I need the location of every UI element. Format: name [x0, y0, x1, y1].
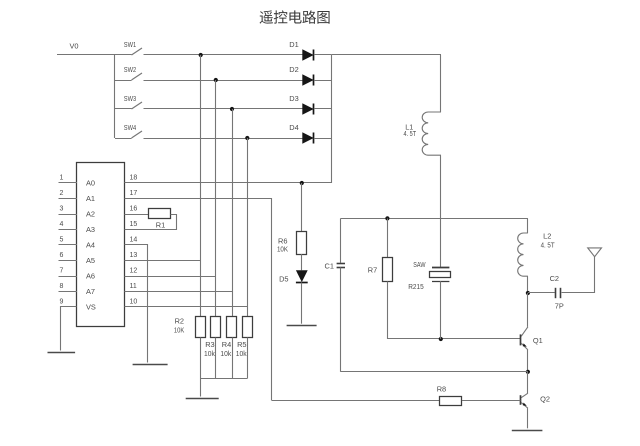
svg-text:R7: R7 [368, 265, 377, 274]
svg-text:16: 16 [130, 206, 138, 213]
svg-text:R3: R3 [205, 340, 214, 349]
svg-text:A3: A3 [86, 225, 95, 234]
svg-text:R215: R215 [408, 282, 424, 291]
svg-text:Q1: Q1 [533, 336, 543, 345]
svg-text:10k: 10k [220, 349, 231, 358]
svg-text:15: 15 [130, 221, 138, 228]
svg-text:C1: C1 [325, 261, 334, 270]
svg-text:10K: 10K [277, 244, 288, 253]
svg-text:A1: A1 [86, 194, 95, 203]
svg-text:V0: V0 [70, 42, 79, 51]
svg-text:17: 17 [130, 190, 138, 197]
svg-text:5: 5 [60, 237, 64, 244]
svg-text:SW4: SW4 [124, 123, 136, 132]
svg-text:D4: D4 [289, 123, 298, 132]
svg-text:D1: D1 [289, 40, 298, 49]
svg-text:10K: 10K [174, 325, 184, 334]
svg-text:4: 4 [60, 221, 64, 228]
svg-text:D2: D2 [289, 65, 298, 74]
svg-text:C2: C2 [550, 274, 559, 283]
svg-text:VS: VS [86, 303, 96, 312]
svg-text:R5: R5 [237, 340, 246, 349]
svg-text:8: 8 [60, 283, 64, 290]
svg-text:18: 18 [130, 175, 138, 182]
svg-text:1: 1 [60, 175, 64, 182]
svg-text:SAW: SAW [413, 260, 425, 269]
svg-text:4. 5T: 4. 5T [541, 241, 555, 250]
svg-text:3: 3 [60, 206, 64, 213]
svg-text:2: 2 [60, 190, 64, 197]
svg-text:A6: A6 [86, 272, 95, 281]
svg-text:9: 9 [60, 299, 64, 306]
svg-text:4. 5T: 4. 5T [404, 129, 417, 138]
svg-text:R2: R2 [175, 317, 184, 326]
svg-text:A5: A5 [86, 256, 95, 265]
svg-text:A7: A7 [86, 287, 95, 296]
svg-text:10k: 10k [236, 349, 247, 358]
svg-text:R8: R8 [437, 384, 446, 393]
svg-text:10k: 10k [204, 349, 215, 358]
svg-text:D3: D3 [289, 94, 298, 103]
svg-text:R1: R1 [156, 220, 165, 229]
svg-text:7: 7 [60, 268, 64, 275]
svg-text:SW3: SW3 [124, 94, 136, 103]
svg-text:D5: D5 [279, 275, 288, 284]
svg-text:L2: L2 [543, 232, 551, 241]
svg-text:SW1: SW1 [124, 40, 136, 49]
svg-text:13: 13 [130, 252, 138, 259]
svg-text:14: 14 [130, 237, 138, 244]
svg-text:10: 10 [130, 299, 138, 306]
svg-text:6: 6 [60, 252, 64, 259]
svg-text:11: 11 [130, 283, 137, 290]
svg-text:A0: A0 [86, 179, 95, 188]
svg-text:A2: A2 [86, 210, 95, 219]
svg-text:R4: R4 [222, 340, 231, 349]
svg-text:Q2: Q2 [540, 395, 550, 404]
svg-text:SW2: SW2 [124, 65, 136, 74]
svg-text:7P: 7P [555, 302, 564, 311]
svg-text:12: 12 [130, 268, 138, 275]
svg-text:A4: A4 [86, 241, 95, 250]
